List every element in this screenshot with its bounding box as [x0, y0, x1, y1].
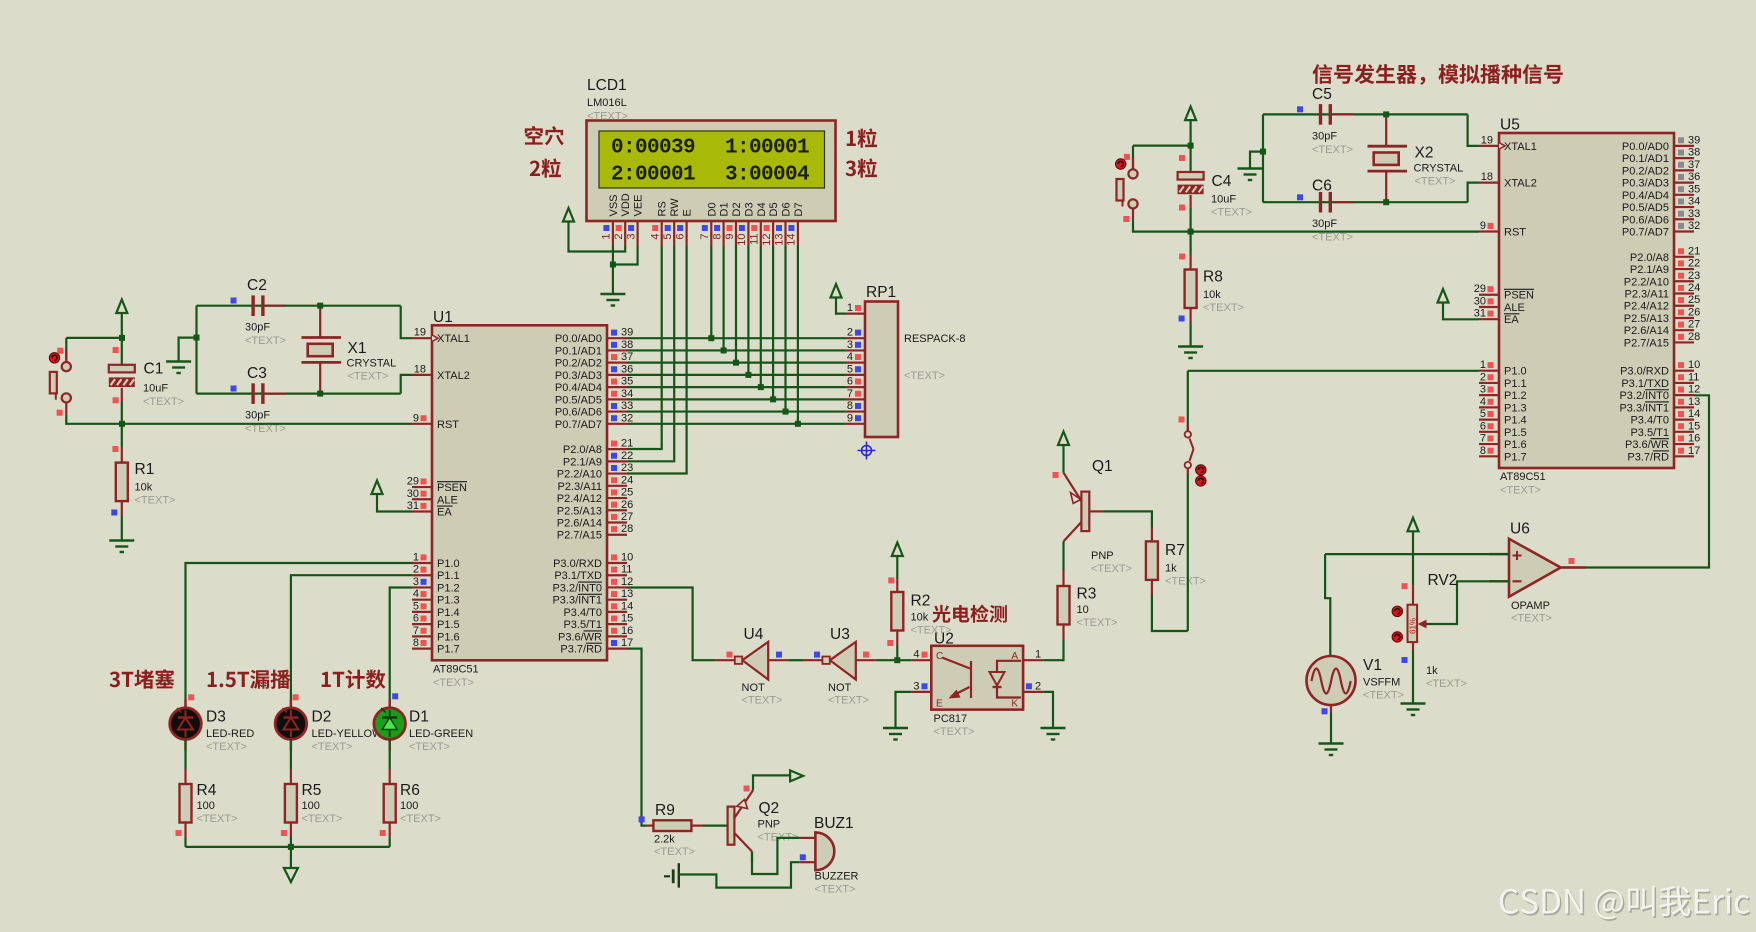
- svg-text:R4: R4: [197, 782, 217, 799]
- ground (U2 E): [883, 728, 908, 740]
- svg-text:21: 21: [621, 438, 633, 450]
- svg-text:D1: D1: [409, 709, 429, 726]
- U5 pin 13 P3.3/INT1: [1619, 396, 1700, 415]
- svg-text:P1.1: P1.1: [1504, 378, 1527, 390]
- LCD1 pin 2 VDD: [613, 193, 632, 246]
- svg-text:VSS: VSS: [608, 194, 620, 216]
- U1 pin 13 P3.3/INT1: [552, 588, 633, 607]
- annotation 2粒: [530, 158, 561, 177]
- svg-text:14: 14: [621, 600, 633, 612]
- U1 pin 28 P2.7/A15: [557, 523, 634, 542]
- U1 pin 34 P0.5/AD5: [555, 388, 633, 407]
- U1 pin 17 P3.7/RD: [560, 637, 633, 656]
- svg-text:10: 10: [1688, 359, 1700, 371]
- svg-text:P0.3/AD3: P0.3/AD3: [1622, 178, 1669, 190]
- svg-text:P1.2: P1.2: [437, 582, 460, 594]
- U5 pin 16 P3.6/WR: [1625, 433, 1700, 452]
- junction C1/R1/RST: [119, 421, 125, 427]
- svg-text:P0.5/AD5: P0.5/AD5: [1622, 202, 1669, 214]
- wire to R1: [121, 424, 123, 447]
- wire switch to R7 node: [1187, 475, 1189, 631]
- label U3: [828, 626, 869, 707]
- svg-text:<TEXT>: <TEXT>: [433, 677, 474, 689]
- optocoupler U2 body: [931, 646, 1023, 710]
- label D3: [206, 709, 254, 754]
- interactive button (RV2 down): [1392, 632, 1402, 642]
- svg-text:32: 32: [1688, 220, 1700, 232]
- LCD1 pin 13 D6: [773, 202, 792, 246]
- svg-text:37: 37: [621, 351, 633, 363]
- wire E to P2.2: [627, 246, 687, 474]
- svg-text:<TEXT>: <TEXT>: [143, 396, 184, 408]
- wire C4 to RST rail: [1189, 208, 1191, 232]
- capacitor C6 lead: [1334, 201, 1354, 203]
- wire P0.3 bus to RP1: [627, 374, 845, 376]
- label RP1: [866, 284, 966, 382]
- U1 pin 7 P1.6: [412, 625, 460, 644]
- svg-text:35: 35: [1688, 183, 1700, 195]
- C5 wire marker: [1297, 106, 1303, 112]
- svg-text:P1.5: P1.5: [1504, 427, 1527, 439]
- junction D6/P0.6: [783, 409, 789, 415]
- wire C3 bottom rail: [197, 393, 401, 395]
- signal source V1: [1307, 656, 1356, 705]
- U1 pin 29 PSEN: [407, 476, 467, 495]
- NOT gate U3: [803, 642, 875, 680]
- wire Q1 base to R7: [1104, 511, 1152, 527]
- junction X2 top: [1383, 111, 1389, 117]
- svg-text:<TEXT>: <TEXT>: [1165, 576, 1206, 588]
- wire C6 bottom rail: [1263, 201, 1468, 203]
- svg-text:P3.6/WR: P3.6/WR: [1625, 439, 1669, 451]
- svg-text:33: 33: [621, 400, 633, 412]
- svg-text:26: 26: [621, 499, 633, 511]
- R1 upper marker: [112, 446, 118, 452]
- resistor R8: [1185, 270, 1197, 309]
- U1 pin 33 P0.6/AD6: [555, 400, 633, 419]
- svg-text:<TEXT>: <TEXT>: [904, 370, 945, 382]
- svg-text:CRYSTAL: CRYSTAL: [1414, 163, 1464, 175]
- svg-text:<TEXT>: <TEXT>: [1415, 176, 1456, 188]
- U5 pin 4 P1.3: [1479, 396, 1527, 415]
- svg-text:P0.2/AD2: P0.2/AD2: [555, 358, 602, 370]
- svg-text:P1.0: P1.0: [1504, 366, 1527, 378]
- U2 pin 2: [1023, 680, 1043, 692]
- svg-text:AT89C51: AT89C51: [433, 663, 479, 675]
- svg-text:P2.3/A11: P2.3/A11: [558, 481, 602, 493]
- svg-text:EA: EA: [437, 506, 452, 518]
- U1 pin 3 P1.2: [412, 576, 460, 595]
- svg-text:P3.0/RXD: P3.0/RXD: [1620, 366, 1669, 378]
- wire U5 P1.0 to switch: [1188, 370, 1479, 372]
- svg-text:18: 18: [1481, 171, 1493, 183]
- svg-text:RW: RW: [669, 198, 681, 217]
- junction D1/P0.1: [721, 347, 727, 353]
- svg-text:U2: U2: [934, 631, 954, 648]
- svg-text:28: 28: [621, 523, 633, 535]
- svg-text:7: 7: [847, 388, 853, 400]
- svg-text:LED-YELLOW: LED-YELLOW: [312, 728, 384, 740]
- svg-text:<TEXT>: <TEXT>: [1312, 232, 1353, 244]
- svg-text:R5: R5: [302, 782, 322, 799]
- wire P1.0(U5) to switch: [1187, 371, 1189, 431]
- C4 lower lead: [1189, 195, 1191, 208]
- label R6: [400, 782, 441, 825]
- NOT gate U4: [716, 642, 788, 680]
- svg-text:10k: 10k: [1203, 289, 1221, 301]
- R3 lower lead: [1062, 625, 1064, 641]
- svg-text:P0.7/AD7: P0.7/AD7: [1622, 227, 1669, 239]
- svg-text:<TEXT>: <TEXT>: [1511, 613, 1552, 625]
- svg-text:2: 2: [613, 234, 625, 240]
- svg-text:<TEXT>: <TEXT>: [206, 741, 247, 753]
- watermark: [1501, 888, 1750, 921]
- svg-text:3: 3: [413, 576, 419, 588]
- svg-text:PC817: PC817: [934, 713, 968, 725]
- svg-text:R3: R3: [1077, 586, 1097, 603]
- svg-text:0:00039: 0:00039: [611, 137, 695, 160]
- label R9: [654, 802, 695, 858]
- junction LED bus: [288, 844, 294, 850]
- power VCC arrow (RV2): [1408, 518, 1419, 532]
- label D2: [312, 709, 384, 754]
- svg-text:<TEXT>: <TEXT>: [828, 695, 869, 707]
- label V1: [1363, 657, 1404, 702]
- svg-text:D5: D5: [768, 202, 780, 216]
- svg-text:P0.0/AD0: P0.0/AD0: [555, 333, 602, 345]
- svg-text:P1.5: P1.5: [437, 619, 460, 631]
- svg-text:AT89C51: AT89C51: [1500, 471, 1546, 483]
- svg-text:P0.6/AD6: P0.6/AD6: [1622, 214, 1669, 226]
- svg-text:1k: 1k: [1426, 665, 1438, 677]
- junction osc ground tap: [194, 335, 200, 341]
- U1 pin 36 P0.3/AD3: [555, 363, 633, 382]
- power VCC arrow (Q1): [1058, 432, 1069, 446]
- svg-text:2.2k: 2.2k: [654, 834, 675, 846]
- wire VCC to C4: [1189, 120, 1191, 172]
- V1 lower lead: [1330, 705, 1332, 713]
- U1 pin 24 P2.3/A11: [558, 474, 634, 493]
- wire P3.2 to U4: [627, 588, 716, 661]
- svg-text:R2: R2: [911, 593, 931, 610]
- U2 pin 4: [911, 649, 931, 661]
- R5 marker: [281, 830, 287, 836]
- interactive button (switch down): [1196, 476, 1206, 486]
- ground (R1): [109, 541, 134, 553]
- U5 pin 39 P0.0/AD0: [1622, 134, 1700, 153]
- svg-text:6: 6: [413, 613, 419, 625]
- button2 markers: [1123, 154, 1130, 222]
- svg-text:K: K: [1011, 699, 1018, 710]
- label R3: [1077, 586, 1118, 630]
- svg-text:<TEXT>: <TEXT>: [1211, 207, 1252, 219]
- interactive button (reset): [49, 353, 59, 363]
- svg-text:P3.5/T1: P3.5/T1: [563, 619, 602, 631]
- power VCC arrow (R2): [892, 543, 903, 557]
- buzzer BUZ1: [815, 832, 834, 870]
- svg-text:P1.6: P1.6: [1504, 439, 1527, 451]
- svg-text:VSFFM: VSFFM: [1363, 677, 1400, 689]
- wire VCC to EA: [377, 494, 412, 512]
- label X1: [347, 340, 397, 383]
- svg-text:28: 28: [1688, 331, 1700, 343]
- wire D3 vertical: [747, 246, 749, 375]
- svg-text:<TEXT>: <TEXT>: [197, 813, 238, 825]
- svg-text:100: 100: [197, 800, 215, 812]
- RP1 pin 3: [845, 339, 865, 351]
- svg-text:39: 39: [1688, 134, 1700, 146]
- svg-text:19: 19: [1481, 134, 1493, 146]
- label LCD1: [587, 77, 628, 123]
- U1 pin 12 P3.2/INT0: [552, 576, 633, 595]
- svg-text:<TEXT>: <TEXT>: [654, 846, 695, 858]
- interactive button (RV2 up): [1392, 606, 1402, 616]
- svg-text:D0: D0: [706, 202, 718, 216]
- wire R7 to switch: [1152, 595, 1188, 631]
- wire to R8: [1189, 232, 1191, 255]
- U5 pin 36 P0.3/AD3: [1622, 171, 1700, 190]
- svg-text:D4: D4: [756, 202, 768, 216]
- U1 pin 11 P3.1/TXD: [554, 564, 632, 583]
- wire button top rail: [66, 337, 122, 339]
- R5 lead: [290, 769, 292, 784]
- svg-text:19: 19: [414, 327, 426, 339]
- RP1 pin 7: [845, 388, 865, 400]
- svg-text:P2.0/A8: P2.0/A8: [1630, 252, 1669, 264]
- svg-text:VEE: VEE: [633, 194, 645, 216]
- svg-text:P1.4: P1.4: [437, 607, 460, 619]
- svg-text:61%: 61%: [1409, 618, 1418, 634]
- wire XTAL2: [401, 375, 412, 394]
- LCD1 pin 7 D0: [699, 202, 718, 246]
- svg-text:U6: U6: [1510, 521, 1530, 538]
- LCD1 pin 1 VSS: [601, 194, 620, 246]
- svg-text:U3: U3: [830, 626, 850, 643]
- svg-text:P2.1/A9: P2.1/A9: [563, 456, 602, 468]
- U5 pin 8 P1.7: [1479, 445, 1527, 464]
- svg-text:ALE: ALE: [1504, 302, 1525, 314]
- wire Q1 collector to R3: [1062, 541, 1064, 571]
- svg-text:7: 7: [413, 625, 419, 637]
- label R1: [135, 461, 176, 507]
- wire C2 top rail: [197, 305, 401, 307]
- ground (U2 K): [1041, 728, 1066, 740]
- svg-text:13: 13: [773, 234, 785, 246]
- U5 pin 10 P3.0/RXD: [1620, 359, 1700, 378]
- svg-text:PSEN: PSEN: [1504, 290, 1534, 302]
- resistor R2: [891, 592, 903, 631]
- svg-text:12: 12: [621, 576, 633, 588]
- wire P0.6 bus to RP1: [627, 410, 845, 412]
- svg-text:RV2: RV2: [1428, 572, 1458, 589]
- annotation 空穴: [525, 126, 564, 145]
- R6 lower lead: [389, 823, 391, 838]
- power VCC arrow (LCD VDD): [563, 208, 574, 222]
- wire R5 top: [290, 739, 292, 769]
- svg-text:C1: C1: [144, 361, 164, 378]
- svg-text:7: 7: [1480, 433, 1486, 445]
- R1 lower lead: [121, 501, 123, 516]
- svg-text:LED-RED: LED-RED: [206, 728, 254, 740]
- svg-text:<TEXT>: <TEXT>: [1091, 563, 1132, 575]
- svg-text:BUZZER: BUZZER: [815, 871, 859, 883]
- ground (RV2): [1401, 704, 1426, 716]
- ground (osc): [166, 362, 191, 374]
- wire XTAL1: [401, 306, 412, 339]
- svg-text:V1: V1: [1363, 657, 1382, 674]
- svg-text:P1.6: P1.6: [437, 631, 460, 643]
- svg-text:XTAL1: XTAL1: [437, 333, 470, 345]
- label C5: [1312, 86, 1353, 156]
- svg-text:X1: X1: [348, 340, 367, 357]
- svg-text:3:00004: 3:00004: [725, 164, 809, 187]
- U1 pin 19 XTAL1: [412, 327, 470, 346]
- svg-text:11: 11: [1688, 371, 1699, 383]
- C1 lower lead: [121, 388, 123, 401]
- U1 pin 9 RST: [412, 412, 459, 431]
- label C3: [245, 365, 286, 435]
- svg-text:P0.2/AD2: P0.2/AD2: [1622, 165, 1669, 177]
- wire R4 bottom: [184, 837, 186, 847]
- svg-text:6: 6: [847, 376, 853, 388]
- Q1 marker: [1053, 472, 1059, 478]
- junction VCC/button2: [1188, 143, 1194, 149]
- U5 pin 33 P0.6/AD6: [1622, 208, 1700, 227]
- wire P0.4 bus to RP1: [627, 386, 845, 388]
- U5 pin 24 P2.3/A11: [1625, 282, 1701, 301]
- svg-text:29: 29: [1474, 283, 1486, 295]
- svg-text:P0.5/AD5: P0.5/AD5: [555, 394, 602, 406]
- label Q1: [1091, 458, 1132, 575]
- U1 pin 14 P3.4/T0: [563, 600, 633, 619]
- svg-text:P0.4/AD4: P0.4/AD4: [555, 382, 602, 394]
- svg-text:R7: R7: [1165, 542, 1185, 559]
- wire VCC to U5 EA: [1443, 303, 1479, 320]
- label X2: [1414, 145, 1464, 188]
- svg-text:C4: C4: [1212, 173, 1232, 190]
- svg-text:5: 5: [847, 363, 853, 375]
- wire LED common bus: [186, 846, 390, 848]
- label R5: [302, 782, 343, 825]
- wire P1.0 to D3: [186, 563, 413, 708]
- svg-text:17: 17: [1688, 445, 1700, 457]
- resistor R6: [384, 784, 396, 823]
- D1 marker: [392, 693, 398, 699]
- U1 pin 16 P3.6/WR: [558, 625, 633, 644]
- svg-text:P2.3/A11: P2.3/A11: [1625, 289, 1669, 301]
- svg-text:1k: 1k: [1165, 563, 1177, 575]
- label U4: [742, 626, 783, 707]
- wire battery to buzzer: [679, 862, 800, 887]
- svg-text:U1: U1: [433, 309, 453, 326]
- svg-text:RS: RS: [657, 201, 669, 216]
- svg-text:27: 27: [1688, 319, 1700, 331]
- U5 pin 23 P2.2/A10: [1624, 270, 1701, 289]
- svg-text:VDD: VDD: [620, 193, 632, 216]
- LCD display text: [611, 137, 809, 187]
- svg-text:2: 2: [1035, 680, 1041, 692]
- svg-text:P0.1/AD1: P0.1/AD1: [1622, 153, 1669, 165]
- wire to ground: [612, 265, 614, 295]
- U1 pin 4 P1.3: [412, 588, 460, 607]
- svg-text:NOT: NOT: [742, 682, 766, 694]
- U5 pin 7 P1.6: [1479, 433, 1527, 452]
- svg-text:1: 1: [1480, 359, 1486, 371]
- svg-text:26: 26: [1688, 306, 1700, 318]
- svg-text:4: 4: [413, 588, 419, 600]
- svg-text:<TEXT>: <TEXT>: [348, 371, 389, 383]
- svg-text:8: 8: [847, 400, 853, 412]
- U2 pin 1: [1023, 649, 1043, 661]
- ground (R8): [1178, 347, 1203, 359]
- U1 pin 26 P2.5/A13: [557, 499, 634, 518]
- label C4: [1211, 173, 1252, 219]
- wire VSS down: [612, 246, 614, 265]
- svg-text:P1.3: P1.3: [1504, 402, 1527, 414]
- U1 pin 31 EA: [407, 500, 453, 518]
- resistor R1: [116, 463, 128, 502]
- wire U5 RST: [1133, 220, 1479, 232]
- resistor R4: [180, 784, 192, 823]
- svg-text:<TEXT>: <TEXT>: [135, 495, 176, 507]
- U1 pin 6 P1.5: [412, 613, 460, 632]
- U5 pin 25 P2.4/A12: [1624, 294, 1701, 313]
- label RV2: [1426, 572, 1467, 690]
- svg-text:RESPACK-8: RESPACK-8: [904, 333, 966, 345]
- svg-text:P3.4/T0: P3.4/T0: [1630, 415, 1669, 427]
- junction C4/R8/RST: [1188, 229, 1194, 235]
- svg-text:P1.4: P1.4: [1504, 415, 1527, 427]
- svg-text:XTAL1: XTAL1: [1504, 141, 1537, 153]
- wire U5 XTAL2: [1468, 183, 1479, 203]
- U5 pin 32 P0.7/AD7: [1622, 220, 1700, 239]
- label R7: [1165, 542, 1206, 588]
- U5 pin 2 P1.1: [1479, 371, 1527, 390]
- svg-text:10k: 10k: [911, 612, 929, 624]
- wire P0.5 bus to RP1: [627, 398, 845, 400]
- svg-text:P3.1/TXD: P3.1/TXD: [1621, 378, 1669, 390]
- LCD1 pin 9 D2: [724, 202, 743, 246]
- svg-text:15: 15: [621, 613, 633, 625]
- power VCC arrow (U5 EA): [1438, 289, 1449, 303]
- svg-text:4: 4: [650, 234, 662, 240]
- svg-text:<TEXT>: <TEXT>: [1312, 144, 1353, 156]
- svg-text:21: 21: [1688, 245, 1700, 257]
- svg-text:P2.5/A13: P2.5/A13: [557, 505, 602, 517]
- R4 lower lead: [184, 823, 186, 838]
- junction D3/P0.3: [745, 372, 751, 378]
- junction D7/P0.7: [795, 421, 801, 427]
- svg-text:22: 22: [621, 450, 633, 462]
- power VCC arrow (U1 EA): [372, 481, 383, 495]
- resistor pack RP1: [865, 302, 898, 438]
- wire P0.7 bus to RP1: [627, 423, 845, 425]
- svg-text:U4: U4: [744, 626, 764, 643]
- wire VCC to Q1 emitter: [1062, 445, 1064, 473]
- RP1 pin 2: [845, 327, 865, 339]
- wire D4 vertical: [760, 246, 762, 387]
- svg-text:2: 2: [847, 327, 853, 339]
- R7 lower lead: [1151, 580, 1153, 595]
- ground (V1): [1319, 744, 1344, 756]
- junction osc2 ground tap: [1260, 149, 1266, 155]
- svg-text:<TEXT>: <TEXT>: [312, 741, 353, 753]
- svg-text:P2.6/A14: P2.6/A14: [557, 518, 602, 530]
- U1 pin 10 P3.0/RXD: [553, 551, 633, 570]
- svg-text:2:00001: 2:00001: [611, 164, 695, 187]
- R6 lead: [389, 769, 391, 784]
- R2 marker: [888, 577, 894, 583]
